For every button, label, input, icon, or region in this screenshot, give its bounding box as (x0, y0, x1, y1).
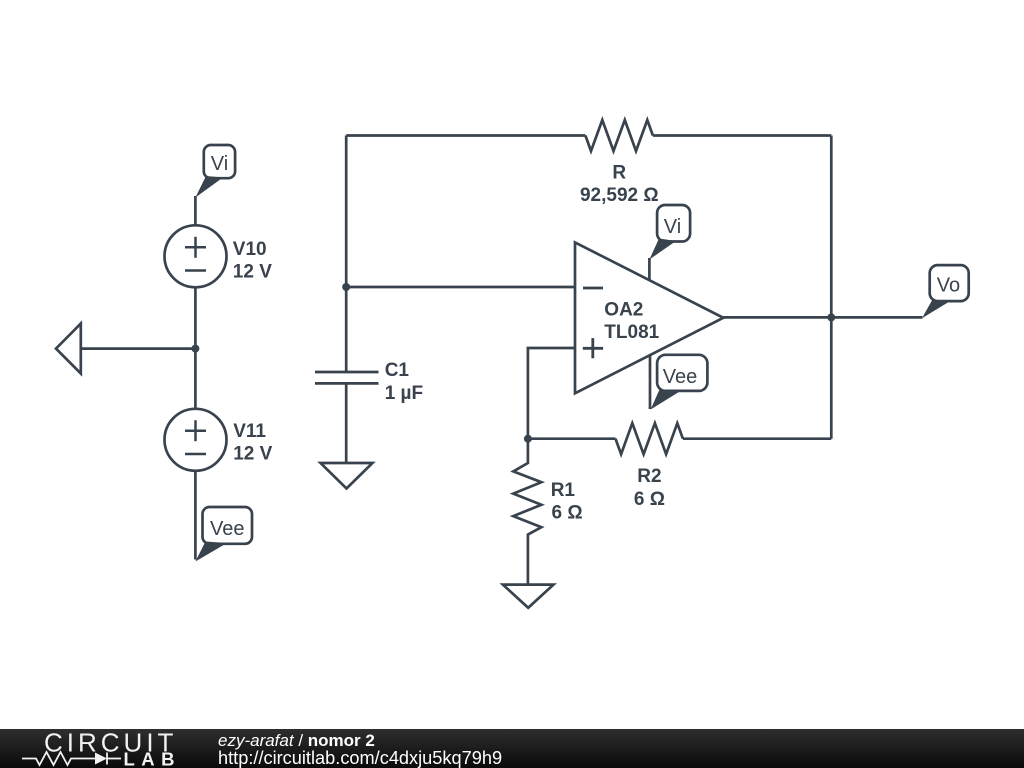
wire op-amp V- stub (649, 356, 652, 409)
wire left vertical to capacitor (345, 136, 348, 373)
wire V10 to node (194, 287, 197, 409)
wire bottom left segment (528, 437, 616, 440)
op-amp minus glyph (583, 287, 603, 290)
flag tail Vi (top left) (195, 176, 223, 198)
node dot (left) (191, 345, 199, 353)
ground (left arrow) (56, 324, 81, 374)
node dot (R1/R2) (524, 435, 532, 443)
logo squiggle resistor+diode (22, 752, 121, 765)
op-amp OA2 triangle (575, 242, 723, 393)
svg-text:http://circuitlab.com/c4dxju5k: http://circuitlab.com/c4dxju5kq79h9 (218, 748, 502, 768)
voltage source V11 (165, 409, 227, 471)
wire capacitor to ground (345, 383, 348, 463)
logo diode triangle (95, 753, 107, 765)
flag Vi (top left) (204, 145, 235, 178)
wire output (723, 316, 922, 319)
wire top feedback right segment (653, 134, 831, 137)
flag tail Vee (op-amp V-) (651, 390, 681, 410)
flag Vi (op-amp V+) (657, 205, 690, 242)
wire node to left ground arrow (81, 347, 196, 350)
wire inverting input (346, 286, 575, 289)
wire noninverting input (528, 348, 575, 439)
flag Vo (output) (930, 265, 969, 301)
resistor R2 (616, 423, 683, 454)
capacitor C1 (315, 372, 379, 383)
node dot (output) (827, 313, 835, 321)
flag tail Vee (bottom left) (195, 542, 227, 562)
wire bottom right segment (683, 437, 831, 440)
op-amp plus glyph (583, 338, 603, 358)
flag tail Vo (922, 300, 950, 319)
flag tail Vi (op-amp V+) (649, 239, 676, 260)
resistor R1 (513, 439, 541, 585)
node dot (C1 / inverting input) (342, 283, 350, 291)
wire top feedback left segment (346, 134, 585, 137)
ground (below C1) (321, 463, 373, 489)
ground (below R1) (503, 585, 554, 608)
wire V11 to Vee (194, 471, 197, 560)
wire right vertical (830, 136, 833, 439)
flag Vee (op-amp V-) (657, 355, 707, 391)
svg-text:LAB: LAB (124, 749, 182, 768)
flag Vee (bottom left) (203, 507, 253, 544)
wire Vi to V10 (194, 196, 197, 226)
resistor R (585, 120, 653, 151)
wire op-amp V+ stub (648, 258, 651, 280)
footer bar (0, 729, 1024, 768)
voltage source V10 (165, 225, 227, 287)
